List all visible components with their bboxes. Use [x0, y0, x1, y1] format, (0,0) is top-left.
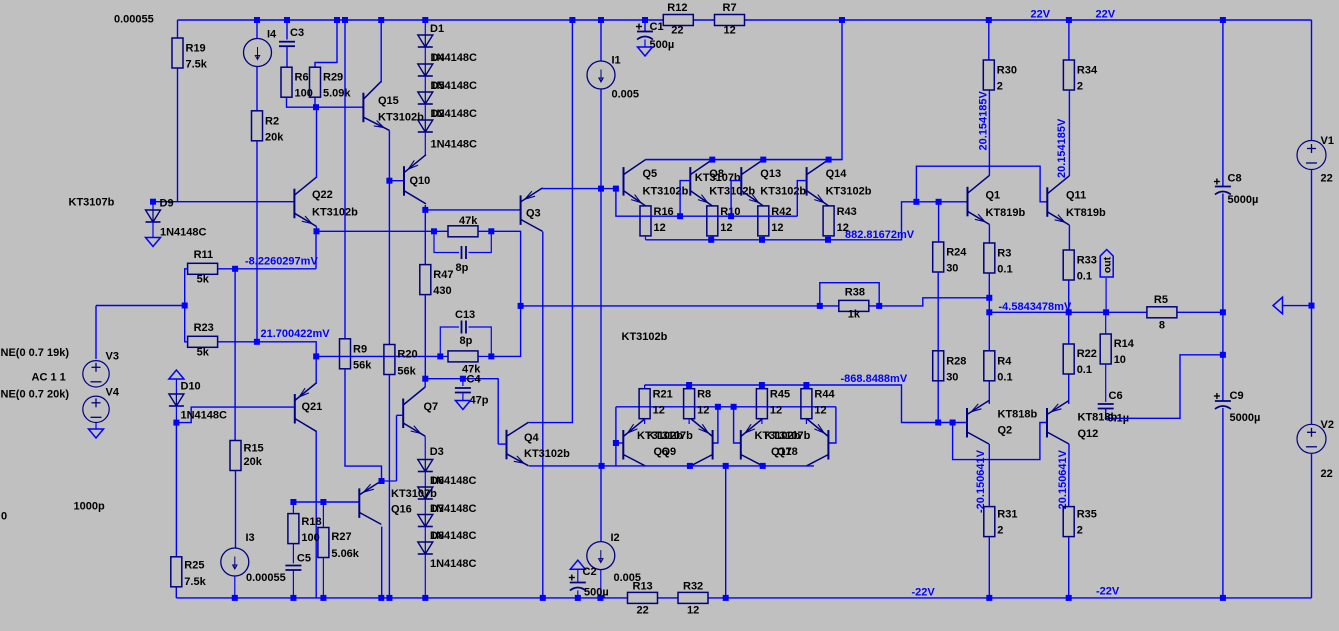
- transistor Q5: [624, 160, 646, 206]
- svg-text:0.1: 0.1: [997, 264, 1012, 276]
- wire C4 node: [425, 378, 498, 380]
- svg-text:R35: R35: [1077, 509, 1097, 521]
- diode D2: [418, 120, 433, 132]
- wire Q11 emitter to R33: [1068, 225, 1070, 250]
- wire R45 bottom stub: [761, 419, 763, 424]
- wire I4 to R2: [256, 67, 258, 111]
- svg-text:0.00055: 0.00055: [246, 572, 286, 584]
- svg-text:D3: D3: [430, 446, 444, 458]
- wire C13 left: [440, 327, 459, 356]
- resistor R33: [1063, 250, 1074, 280]
- node Q16 emitter: [379, 478, 385, 484]
- svg-text:KT818b: KT818b: [998, 409, 1038, 421]
- wire R47 bottom to C4 node: [424, 295, 426, 379]
- svg-text:D10: D10: [181, 381, 201, 393]
- node rail Q3 column: [540, 595, 546, 601]
- node rail R30: [986, 17, 992, 23]
- svg-text:22V: 22V: [1031, 9, 1051, 21]
- wire Q13 base riser: [731, 181, 741, 217]
- svg-text:0.1: 0.1: [1077, 271, 1092, 283]
- svg-text:-20.150641V: -20.150641V: [1057, 449, 1069, 513]
- wire port arrow to V column: [1283, 305, 1312, 307]
- node Q22 emitter: [314, 228, 320, 234]
- svg-text:R11: R11: [194, 249, 214, 261]
- node Q21 collector: [313, 353, 319, 359]
- wire R38 bypass loop: [820, 283, 879, 306]
- wire I3 to rail: [234, 576, 236, 598]
- voltage source V3: [83, 361, 109, 387]
- node output wire left: [986, 309, 992, 315]
- svg-text:500µ: 500µ: [650, 39, 675, 51]
- node rail C2: [575, 595, 581, 601]
- capacitor C6: [1098, 404, 1114, 409]
- diode D4: [418, 64, 433, 76]
- node rail C3: [284, 17, 290, 23]
- transistor Q22: [294, 177, 316, 226]
- wire D7-D8: [424, 527, 426, 543]
- wire Q16 base to R18/R27: [293, 501, 359, 503]
- transistor Q13: [741, 160, 763, 206]
- svg-text:KT818b: KT818b: [1078, 412, 1118, 424]
- svg-text:C1: C1: [650, 21, 664, 33]
- svg-text:R9: R9: [353, 343, 367, 355]
- svg-text:AC 1 1: AC 1 1: [32, 372, 66, 384]
- node rail I1: [598, 17, 604, 23]
- resistor R25: [171, 557, 182, 587]
- wire C2 to rail: [577, 591, 579, 598]
- capacitor C9: [1214, 393, 1231, 409]
- svg-text:V2: V2: [1321, 419, 1334, 431]
- wire +22V top rail: [178, 19, 664, 21]
- node Q1 base / Q11 branch: [913, 199, 919, 205]
- svg-text:8: 8: [1159, 319, 1165, 331]
- node rail D3 chain: [422, 595, 428, 601]
- node rail R9 column: [342, 17, 348, 23]
- svg-text:R38: R38: [845, 286, 865, 298]
- voltage source V4: [83, 396, 109, 422]
- resistor R14: [1100, 334, 1111, 364]
- resistor R31: [984, 507, 995, 537]
- transistor Q8: [690, 160, 712, 206]
- resistor R2: [252, 111, 263, 141]
- node rail R34: [1066, 17, 1072, 23]
- wire R11 to Q22 emitter node: [315, 231, 317, 268]
- resistor 47k upper: [448, 226, 478, 237]
- svg-text:7.5k: 7.5k: [186, 59, 208, 71]
- wire driver output bottom: [529, 465, 814, 467]
- svg-text:47k: 47k: [459, 215, 478, 227]
- wire rail to I1: [600, 20, 602, 62]
- wire Q15 emitter down: [388, 130, 390, 180]
- svg-text:KT819b: KT819b: [1066, 207, 1106, 219]
- wire R20 bottom to rail: [388, 375, 390, 598]
- wire Q18 base riser: [828, 407, 836, 443]
- svg-text:C9: C9: [1230, 390, 1244, 402]
- wire Q22 emitter to 47k network: [317, 227, 435, 232]
- capacitor C13: [462, 321, 467, 334]
- wire V1 to V2: [1311, 170, 1313, 425]
- wire Q16 emitter to Q7 base column: [382, 480, 397, 482]
- node R28 bottom: [935, 420, 941, 426]
- wire D5-D2: [424, 104, 426, 120]
- svg-text:22: 22: [671, 25, 683, 37]
- voltage source V2: [1297, 424, 1326, 453]
- svg-text:56k: 56k: [397, 366, 416, 378]
- wire D2 to Q10 emitter: [424, 132, 426, 155]
- svg-text:-868.8488mV: -868.8488mV: [841, 373, 908, 385]
- port arrow to supply midpoint: [1273, 297, 1283, 314]
- svg-text:R20: R20: [397, 349, 417, 361]
- wire V3 to divider: [96, 305, 185, 307]
- svg-text:-20.150641V: -20.150641V: [975, 449, 987, 513]
- node R2 bottom: [254, 339, 260, 345]
- wire D4-D5: [424, 76, 426, 92]
- capacitor C1: [636, 24, 653, 40]
- wire to 8p cap left: [434, 231, 459, 252]
- resistor R9: [340, 339, 351, 369]
- svg-text:V1: V1: [1321, 135, 1334, 147]
- svg-text:12: 12: [654, 222, 666, 234]
- resistor R18: [288, 514, 299, 544]
- svg-text:0: 0: [1, 511, 7, 523]
- svg-text:1k: 1k: [848, 308, 861, 320]
- node Q10 collector: [422, 207, 428, 213]
- wire node to R27: [322, 502, 324, 528]
- svg-text:0.00055: 0.00055: [114, 14, 154, 26]
- svg-text:12: 12: [724, 25, 736, 37]
- wire R18 to C5: [292, 544, 294, 564]
- svg-text:R15: R15: [244, 443, 264, 455]
- current source I2: [587, 542, 615, 570]
- resistor R6: [281, 67, 292, 97]
- node 47k lower left: [437, 353, 443, 359]
- svg-text:C8: C8: [1228, 173, 1242, 185]
- svg-text:D6: D6: [430, 475, 444, 487]
- node rail R29: [334, 17, 340, 23]
- wire output to R14: [1105, 312, 1107, 334]
- svg-text:KT3102b: KT3102b: [622, 331, 668, 343]
- diode D5: [418, 92, 433, 104]
- resistor R27: [318, 528, 329, 558]
- wire Q7 base to Q16 emitter node: [396, 415, 398, 481]
- resistor R5: [1147, 307, 1177, 318]
- wire Q9 base riser: [713, 407, 718, 443]
- transistor Q11: [1047, 176, 1069, 225]
- svg-text:KT3107b: KT3107b: [391, 488, 437, 500]
- svg-text:-22V: -22V: [912, 587, 936, 599]
- wire left column top: [177, 20, 179, 38]
- svg-text:22: 22: [1321, 468, 1333, 480]
- svg-text:Q14: Q14: [826, 168, 848, 180]
- resistor R43: [823, 206, 834, 236]
- svg-text:0.1: 0.1: [1077, 364, 1092, 376]
- svg-text:R25: R25: [184, 559, 204, 571]
- wire Q7 base stub: [397, 414, 404, 416]
- transistor Q2: [967, 401, 989, 445]
- svg-text:R14: R14: [1114, 338, 1135, 350]
- svg-text:KT3102b: KT3102b: [826, 186, 872, 198]
- svg-text:R4: R4: [997, 355, 1012, 367]
- wire Q10 base column down to R20: [388, 181, 390, 345]
- diode D7: [418, 515, 433, 527]
- wire Q7 collector up: [424, 379, 426, 387]
- wire C13 right: [469, 327, 492, 356]
- svg-text:5k: 5k: [197, 273, 210, 285]
- node bias R29/Q22: [313, 104, 319, 110]
- transistor Q12: [1047, 401, 1069, 445]
- node rail C5: [290, 595, 296, 601]
- resistor R28: [933, 351, 944, 381]
- wire rail to V1: [1311, 20, 1313, 141]
- wire rail to Q15 collector: [380, 20, 382, 83]
- svg-text:20k: 20k: [244, 456, 263, 468]
- wire R8 bottom stub: [688, 419, 690, 424]
- wire node to R18: [292, 502, 294, 514]
- svg-text:20.154185V: 20.154185V: [978, 91, 990, 151]
- wire Q12 base link: [953, 423, 1047, 460]
- svg-text:KT3107b: KT3107b: [647, 430, 693, 442]
- wire rail to D1: [424, 20, 426, 35]
- svg-text:R13: R13: [633, 580, 653, 592]
- wire rail to Q4 collector: [529, 20, 573, 423]
- wire Q3 collector column to bottom rail: [542, 232, 544, 598]
- wire Q4 base riser to C4 node: [497, 379, 499, 444]
- svg-text:-4.5843478mV: -4.5843478mV: [999, 301, 1072, 313]
- svg-text:KT3102b: KT3102b: [312, 207, 358, 219]
- wire R11 node down to R15: [234, 269, 236, 441]
- wire R25 to rail: [175, 587, 177, 598]
- wire Q6 base riser: [615, 407, 617, 466]
- wire rail to R30: [988, 20, 990, 60]
- svg-text:out: out: [1101, 256, 1113, 273]
- resistor R10: [707, 206, 718, 236]
- wire R44 top stub: [805, 385, 807, 389]
- wire rail to R34: [1068, 20, 1070, 60]
- wire driver base bus to Q2: [806, 385, 967, 423]
- wire C9 to bottom rail: [1222, 408, 1224, 598]
- wire R14 to C6: [1105, 364, 1107, 402]
- ground flag below V4: [89, 429, 104, 438]
- wire R44 bottom stub: [805, 419, 807, 424]
- svg-text:Q18: Q18: [777, 446, 798, 458]
- svg-text:C13: C13: [455, 309, 475, 321]
- svg-text:R33: R33: [1077, 255, 1097, 267]
- svg-text:430: 430: [433, 285, 451, 297]
- wire D3-D6: [424, 472, 426, 488]
- svg-text:C3: C3: [290, 27, 304, 39]
- wire output node: [989, 311, 1147, 313]
- resistor R16: [640, 206, 651, 236]
- ground flag above C2: [570, 560, 585, 569]
- node Q12 branch: [950, 420, 956, 426]
- svg-text:C5: C5: [297, 553, 311, 565]
- wire Q22 base net: [153, 201, 294, 203]
- wire Q11 collector to R34: [1068, 90, 1070, 176]
- transistor Q15: [363, 81, 389, 130]
- svg-text:D4: D4: [431, 52, 446, 64]
- wire rail to C1: [644, 20, 646, 32]
- wire R24 to R28 column: [937, 272, 939, 423]
- wire Q10 collector to Q3 base: [425, 209, 520, 211]
- svg-text:12: 12: [653, 405, 665, 417]
- wire C4 to flag: [462, 393, 464, 401]
- wire Q10 base stub: [389, 180, 404, 182]
- node C4 tap: [460, 376, 466, 382]
- svg-text:V4: V4: [106, 387, 120, 399]
- node R27 top: [320, 499, 326, 505]
- wire R2 bottom to feedback node: [256, 141, 258, 342]
- node supply midpoint: [1309, 303, 1315, 309]
- svg-text:R18: R18: [301, 516, 321, 528]
- wire Q22 collector to bias node: [316, 107, 318, 178]
- resistor R23: [188, 336, 218, 347]
- resistor R3: [984, 243, 995, 273]
- wire bottom rail between R13 and R32: [658, 597, 679, 599]
- resistor R21: [639, 389, 650, 419]
- svg-text:Q16: Q16: [391, 504, 412, 516]
- svg-text:Q5: Q5: [643, 168, 658, 180]
- svg-text:1N4148C: 1N4148C: [431, 139, 478, 151]
- node I1 on Q5 base wire: [598, 186, 604, 192]
- svg-text:Q22: Q22: [312, 189, 333, 201]
- wire C1 to flag: [644, 40, 646, 48]
- node D9 top junction: [150, 199, 156, 205]
- svg-text:10: 10: [1114, 354, 1126, 366]
- node rail R27: [320, 595, 326, 601]
- wire driver emitter resistor top bus -868mV: [645, 384, 807, 386]
- wire R33 bottom: [1068, 280, 1070, 312]
- wire 8p right: [469, 231, 492, 252]
- wire C6 to output column: [1106, 355, 1223, 419]
- svg-text:C4: C4: [467, 374, 482, 386]
- transistor Q6: [623, 419, 645, 466]
- diode D10: [169, 394, 184, 406]
- wire bottom rail right of R32: [708, 597, 1312, 599]
- capacitor 8p upper: [462, 246, 467, 259]
- wire 47k right to bus: [478, 231, 521, 306]
- wire C8 to output: [1222, 194, 1224, 313]
- svg-text:KT3107b: KT3107b: [765, 430, 811, 442]
- svg-text:Q3: Q3: [526, 208, 541, 220]
- resistor R7: [715, 15, 745, 26]
- wire R10 bottom stub: [711, 236, 713, 240]
- node rail Q16: [378, 595, 384, 601]
- node VAS bus left: [518, 303, 524, 309]
- wire D1-D4: [424, 47, 426, 64]
- wire rail to C8: [1222, 20, 1224, 187]
- resistor R42: [758, 206, 769, 236]
- wire R31 to rail: [988, 537, 990, 598]
- node Q10 base: [386, 178, 392, 184]
- resistor R47: [420, 265, 431, 295]
- node rail Q15 collector: [378, 17, 384, 23]
- svg-text:0.005: 0.005: [612, 89, 640, 101]
- wire output to R13/R32 node: [725, 466, 727, 598]
- wire D8 to bottom rail: [424, 554, 426, 598]
- svg-text:22: 22: [1321, 173, 1333, 185]
- resistor R8: [684, 389, 695, 419]
- svg-text:C2: C2: [583, 566, 597, 578]
- wire Q16 collector to rail: [381, 527, 383, 598]
- svg-text:R5: R5: [1154, 294, 1168, 306]
- transistor Q14: [807, 160, 829, 206]
- ground flag below D9: [146, 238, 161, 247]
- svg-text:Q11: Q11: [1066, 190, 1086, 202]
- svg-text:1N4148C: 1N4148C: [430, 558, 477, 570]
- svg-text:I4: I4: [267, 29, 277, 41]
- transistor Q4: [507, 422, 529, 466]
- transistor Q18: [806, 419, 828, 466]
- node rail C8: [1220, 17, 1226, 23]
- diode D3: [418, 460, 433, 472]
- transistor Q9: [691, 419, 713, 466]
- transistor Q16: [359, 481, 381, 525]
- wire D9 anode: [152, 202, 154, 210]
- svg-text:2: 2: [997, 81, 1003, 93]
- resistor R15: [230, 441, 241, 471]
- wire down to R25: [175, 423, 177, 557]
- node rail R31: [986, 595, 992, 601]
- svg-text:-8.2260297mV: -8.2260297mV: [245, 256, 318, 268]
- capacitor C2: [569, 575, 586, 591]
- wire flag to D10: [175, 379, 177, 394]
- svg-text:R28: R28: [946, 355, 966, 367]
- svg-text:R3: R3: [997, 248, 1011, 260]
- svg-text:12: 12: [697, 405, 709, 417]
- node R47/Q7/D3: [422, 376, 428, 382]
- svg-text:7.5k: 7.5k: [184, 576, 206, 588]
- wire R23 right to feedback: [218, 342, 317, 357]
- node rail R32 right: [723, 595, 729, 601]
- svg-text:KT3107b: KT3107b: [695, 172, 741, 184]
- svg-text:D7: D7: [430, 503, 444, 515]
- svg-text:R23: R23: [194, 322, 214, 334]
- svg-text:R27: R27: [331, 531, 351, 543]
- svg-text:D8: D8: [430, 530, 444, 542]
- wire R19 bottom to Q22 base rail: [177, 68, 179, 202]
- wire R27 to rail: [322, 558, 324, 598]
- svg-text:Q21: Q21: [302, 401, 323, 413]
- svg-text:R6: R6: [295, 72, 309, 84]
- wire -22V bottom rail: [176, 597, 627, 599]
- resistor R30: [983, 60, 994, 90]
- transistor Q17: [741, 419, 763, 466]
- svg-text:R32: R32: [683, 580, 703, 592]
- resistor R19: [172, 38, 183, 68]
- svg-text:0.1: 0.1: [997, 371, 1012, 383]
- wire to R22: [1068, 312, 1070, 344]
- wire R3 bottom: [988, 273, 990, 312]
- svg-text:47p: 47p: [470, 395, 489, 407]
- svg-text:I1: I1: [612, 55, 621, 67]
- current source I3: [221, 548, 249, 576]
- svg-text:22: 22: [637, 604, 649, 616]
- wire Q21 collector: [315, 356, 317, 382]
- ground flag above D10: [169, 370, 184, 379]
- svg-text:R8: R8: [697, 389, 711, 401]
- wire Q4 base stub: [498, 443, 506, 445]
- current source I4: [244, 39, 272, 67]
- resistor R12: [663, 15, 693, 26]
- node R38 left: [817, 303, 823, 309]
- svg-text:12: 12: [720, 222, 732, 234]
- wire I2 to rail: [600, 570, 602, 598]
- resistor R20: [384, 345, 395, 375]
- wire D6-D7: [424, 499, 426, 515]
- wire Q10 collector to R47: [424, 205, 426, 265]
- svg-text:5000µ: 5000µ: [1228, 194, 1259, 206]
- diode D6: [418, 487, 433, 499]
